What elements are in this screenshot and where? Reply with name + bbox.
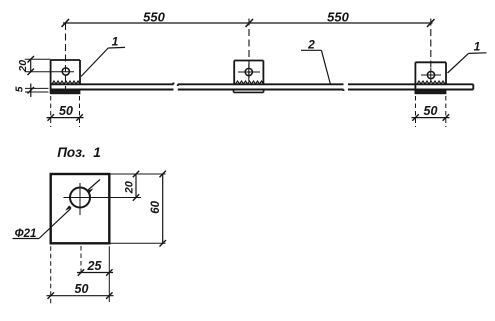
- detail hole: [70, 188, 90, 208]
- weld hatch left plate: [52, 81, 80, 84]
- dimension 50 (right plate): [412, 96, 450, 127]
- plate 1 (left): [51, 60, 80, 94]
- svg-text:60: 60: [150, 200, 162, 213]
- weld strip under left plate: [51, 91, 80, 94]
- svg-text:50: 50: [59, 104, 73, 118]
- centerline right plate: [430, 19, 432, 69]
- svg-text:Ф21: Ф21: [15, 228, 37, 240]
- svg-text:50: 50: [75, 282, 89, 296]
- weld hatch right plate: [417, 81, 446, 84]
- plate 1 (middle): [234, 61, 263, 85]
- svg-text:1: 1: [112, 35, 119, 49]
- strip under middle plate: [234, 90, 264, 92]
- arrowhead at hole upper-right: [87, 188, 94, 193]
- detail hole centermark: [64, 183, 142, 215]
- dimension 50 (detail): [47, 246, 114, 305]
- arrowhead at hole lower-left: [65, 205, 72, 210]
- bar item 2 (long strip): [51, 83, 473, 92]
- hole in left plate: [62, 68, 69, 75]
- dimension 25 (detail): [77, 246, 113, 302]
- dimension 50 (left plate): [47, 96, 84, 127]
- dimension 60 (detail): [109, 171, 166, 247]
- svg-text:50: 50: [424, 104, 438, 118]
- hole in middle plate: [245, 68, 252, 75]
- centerline left plate: [65, 23, 67, 96]
- dimension 20 (left plate): [25, 56, 74, 75]
- svg-text:20: 20: [17, 60, 29, 73]
- leader 2 (middle): [301, 50, 331, 84]
- detail plate outline: [51, 174, 110, 243]
- leader 1 (right): [448, 53, 487, 73]
- svg-text:Поз. 1: Поз. 1: [57, 145, 101, 160]
- centermark middle hole: [238, 64, 260, 82]
- svg-text:550: 550: [327, 9, 349, 24]
- svg-text:550: 550: [143, 9, 165, 24]
- leader Ф21: [13, 180, 101, 239]
- centermark right hole: [421, 68, 441, 82]
- dimension 5 (left plate strip): [25, 84, 49, 98]
- dimension line 550+550: [62, 19, 435, 27]
- svg-text:25: 25: [87, 259, 103, 273]
- hole in right plate: [427, 71, 434, 78]
- weld strip under right plate: [415, 91, 446, 94]
- weld hatch middle plate: [236, 81, 264, 84]
- svg-text:1: 1: [474, 40, 481, 54]
- plate 1 (right): [415, 62, 446, 94]
- leader 1 (left): [81, 47, 125, 76]
- centerline middle plate: [248, 19, 250, 82]
- svg-text:20: 20: [124, 180, 136, 194]
- svg-text:2: 2: [307, 38, 315, 52]
- dimension 20 (detail): [109, 171, 165, 201]
- svg-text:5: 5: [14, 86, 25, 92]
